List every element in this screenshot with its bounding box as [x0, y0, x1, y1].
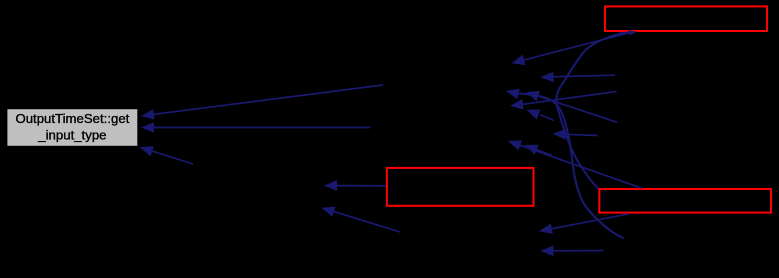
svg-text:OutputTimeSet::get: OutputTimeSet::get	[15, 111, 129, 126]
wire edge gamma long curve from bottom node up to arrowhead C1	[506, 89, 624, 238]
svg-text:_input_type: _input_type	[37, 128, 106, 143]
wire edge E3 into U1 bottom corner	[140, 146, 193, 164]
wire edge S big curve from box B corner up into box T (arrowhead at T)	[556, 30, 636, 189]
wire edge F1 from box B top edge to hidden node	[508, 140, 642, 188]
wire edge F2 short stub with arrowhead	[525, 145, 553, 156]
wire edge a to arrowhead D1	[510, 92, 617, 110]
node U1 OutputTimeSet::get_input_type (current node, grey box)	[7, 109, 138, 147]
node T top-right red box (truncated node)	[605, 6, 767, 31]
wire edge A from box T to hidden node	[512, 32, 634, 65]
wire edge E2 into U1 right (horizontal)	[141, 122, 370, 133]
wire edge J diagonal lower-left	[322, 207, 401, 232]
wire edge D2 short stub with arrowhead	[527, 110, 555, 121]
wire edge E1 into U1 top-right	[141, 85, 383, 120]
wire edge b to arrowhead C2	[526, 91, 617, 122]
wire edge I from box M to hidden node	[324, 180, 386, 191]
wire edge G from box B bottom corner	[539, 214, 629, 234]
wire edge B horizontal mid-right	[541, 72, 616, 83]
wire edge H horizontal bottom	[541, 246, 604, 257]
node M middle red box (truncated node)	[387, 168, 534, 206]
wire edge E short horizontal	[553, 129, 598, 140]
node B bottom-right red box (truncated node)	[599, 189, 771, 213]
